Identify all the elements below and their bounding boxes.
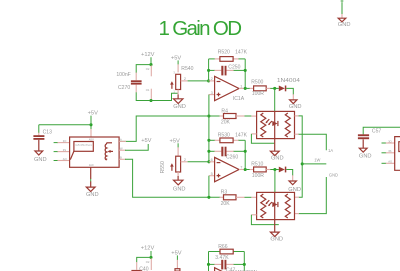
pin: relay2 left pin 1 (386, 142, 395, 144)
svg-text:20K: 20K (221, 201, 231, 207)
svg-text:GND: GND (270, 237, 283, 243)
pin: relay top pin (90, 129, 92, 137)
pin: opto2 left-top pin (251, 196, 256, 198)
pin: relay left pin 3 (58, 160, 70, 162)
pin: unconnected pin upper at x=151 (150, 65, 152, 76)
svg-text:1A0: 1A0 (89, 163, 94, 167)
wire: diode cathode to GND drop (286, 88, 293, 94)
svg-text:GND: GND (86, 192, 99, 198)
wire: GND jog from x=151 to trimmer bottom (151, 93, 178, 100)
junction: C260 rail left (207, 150, 210, 153)
relay K1 inner contact box (74, 142, 93, 152)
pin: opto1 right-top pin (295, 115, 300, 117)
pin: C260 left lead (214, 150, 221, 152)
pin: opto2 left-bottom pin (251, 214, 256, 216)
capacitor C57 plates (358, 134, 369, 136)
junction: diode D1 node (273, 87, 276, 90)
capacitor C47 plates (clipped) (221, 260, 223, 270)
potentiometer R68 body (clipped) (175, 269, 180, 271)
pin: C270 top lead (135, 73, 137, 81)
pin: relay left pin 1 (58, 142, 70, 144)
junction: C260 rail right (244, 150, 247, 153)
svg-text:5: 5 (211, 171, 213, 176)
svg-text:1 Gain OD: 1 Gain OD (159, 17, 243, 40)
wire: net stub 1W (302, 163, 326, 165)
wire: C270 bottom connection (136, 92, 151, 100)
pin: R550 wiper (181, 161, 188, 163)
svg-text:C250: C250 (228, 65, 240, 71)
potentiometer R550 body (176, 156, 181, 172)
wire: net stub 1A (299, 134, 327, 150)
ground (top right) (338, 18, 346, 22)
pin: C250 right lead (227, 69, 234, 71)
pin: R3 right lead (236, 196, 245, 198)
minus sign IC1A (217, 81, 221, 83)
svg-text:C57: C57 (372, 128, 382, 134)
ground (below relay) (86, 187, 95, 191)
pin: C40 top lead (136, 262, 138, 270)
svg-text:+5V: +5V (141, 138, 151, 144)
wire: +5V stub (bottom) (176, 255, 178, 260)
resistor R3 (224, 195, 237, 200)
diode D1 (1N4004) (279, 86, 285, 92)
pin: R550 top lead (177, 147, 179, 156)
relay coil arrow (110, 150, 114, 152)
capacitor C40 plates (clipped) (131, 270, 142, 271)
pin: R4 left lead (220, 115, 224, 117)
plus sign IC1B (217, 174, 221, 178)
svg-text:R3: R3 (221, 190, 228, 196)
resistor R520 (220, 57, 233, 62)
svg-text:R550: R550 (160, 161, 166, 173)
wire: R66 rail (209, 251, 221, 253)
svg-text:3O: 3O (388, 139, 392, 143)
wire: R540 wiper to IC1A inverting input (188, 80, 209, 82)
ground (below C13) (35, 151, 43, 155)
pin: relay left pin 2 (58, 151, 70, 153)
pin: D1 ground pin (292, 94, 294, 100)
capacitor C250 plates (221, 66, 223, 76)
wire: C13 to +5V node (39, 125, 91, 133)
resistor R4 (224, 114, 237, 119)
svg-text:2: 2 (211, 76, 213, 81)
wire: relay left pin 2 stub (54, 151, 58, 153)
optocoupler OK1 box (257, 111, 295, 138)
svg-text:3S: 3S (388, 149, 391, 153)
pin: opto1 right-bottom pin (295, 133, 300, 135)
wire: diode node down to opto1 LED (274, 88, 276, 111)
wire: IC1B non-inverting input drop (208, 176, 210, 198)
wire: opto1 right-top down to opto2 right-top (299, 116, 303, 197)
svg-text:+12V: +12V (141, 246, 155, 252)
resistor R510 (254, 167, 267, 172)
svg-text:C270: C270 (118, 85, 130, 91)
pin: opto1 left-bottom pin (251, 133, 256, 135)
wire: bottom stage left vertical (208, 252, 210, 271)
wire: relay pin B to R3 row (125, 159, 220, 197)
wire: R3 to opto2 (245, 196, 252, 198)
opto1 right LDR zigzag (285, 113, 290, 137)
svg-text:20K: 20K (221, 120, 231, 126)
svg-text:100nF: 100nF (116, 72, 130, 78)
pin: R520 left lead (215, 58, 220, 60)
svg-text:R530: R530 (218, 132, 230, 138)
pin: C13 top lead (38, 133, 40, 136)
svg-text:2: 2 (184, 157, 186, 162)
pin: R540 top lead (177, 64, 179, 72)
pin: R520 right lead (233, 58, 239, 60)
svg-text:+5V: +5V (171, 56, 181, 62)
wire: top-right vertical to ground (341, 0, 343, 14)
pin: R530 left lead (215, 139, 220, 141)
pin: unconnected pin at x=151 (bottom) (150, 258, 152, 270)
pin: IC1A inverting input pin (209, 80, 215, 82)
svg-text:GND: GND (173, 187, 186, 193)
svg-text:AO: AO (63, 157, 67, 161)
svg-text:C13: C13 (43, 129, 53, 135)
svg-text:R510: R510 (251, 162, 263, 168)
capacitor C57 top wire (363, 127, 400, 134)
wire: IC1B output to R510 (245, 169, 250, 171)
wire: opto2 left-bottom to ground pin (251, 215, 278, 225)
wire: net stub GND to opto2 right-bottom (299, 177, 327, 214)
svg-text:100R: 100R (252, 91, 264, 97)
svg-text:R500: R500 (251, 80, 263, 86)
plus sign IC1A (217, 93, 221, 97)
pin: IC1B output pin (239, 169, 245, 171)
wire: relay2 left pin 1 stub (382, 142, 387, 144)
svg-text:A: A (120, 138, 122, 142)
svg-text:GND: GND (173, 104, 186, 110)
svg-text:147K: 147K (235, 132, 247, 138)
opto1 LED pin line (274, 111, 276, 138)
wire: +5V stub above R540 (177, 60, 179, 64)
svg-text:GND: GND (34, 157, 47, 163)
svg-text:R4: R4 (221, 109, 228, 115)
ground lead below C13 (38, 140, 40, 151)
opto1 left LDR zigzag (261, 113, 266, 137)
wire: +5V stub to relay node (90, 116, 92, 130)
svg-text:R66: R66 (218, 244, 228, 250)
opto1 ground pin below box (274, 139, 276, 152)
pin: bottom trimmer top lead (176, 260, 178, 269)
junction: rail R530 left (207, 139, 210, 142)
wire: R500 to diode node (270, 87, 279, 89)
ground (below opto1) (270, 151, 279, 155)
pin circle at top edge (341, 0, 343, 2)
wire: bottom stage right vertical (243, 252, 245, 271)
svg-text:C260: C260 (226, 154, 238, 160)
wire: D2 node down to opto2 LED (274, 170, 276, 193)
pin: R510 right lead (266, 169, 270, 171)
pin: R510 left lead (250, 169, 254, 171)
opto1 emission arrows (266, 119, 272, 124)
wire: feedback right vertical (rail to IC1A output) (244, 59, 246, 89)
pin: R540 wiper (181, 80, 188, 82)
opto2 emission arrows (266, 200, 272, 205)
wire: relay2 left pin 3 stub (382, 162, 387, 164)
pin: opto2 right-top pin (295, 196, 300, 198)
junction: IC1A output node (244, 87, 247, 90)
ground (after D1) (290, 100, 297, 104)
svg-text:1A: 1A (328, 148, 333, 153)
wire: C40 top connection (137, 257, 151, 262)
svg-text:7: 7 (240, 165, 242, 170)
potentiometer R540 body (176, 74, 181, 89)
pin: C270 bottom lead (135, 85, 137, 93)
pin: relay right pin W (119, 149, 126, 151)
svg-text:3O: 3O (63, 139, 67, 143)
pin: C47 right lead (227, 263, 234, 265)
junction: rail/C250 left (207, 69, 210, 72)
wire: green tip on relay ground pin (90, 179, 92, 182)
junction at +12V node (149, 63, 152, 66)
junction: C47 rail right (243, 263, 246, 266)
pin: IC1B inverting input pin (209, 161, 215, 163)
pin: relay2 left pin 2 (386, 152, 395, 154)
diode D2 (279, 167, 285, 173)
ground (below R540) (174, 99, 183, 104)
junction: +12V node (bottom) (149, 256, 152, 259)
ground lead below C57 (362, 139, 364, 148)
svg-text:GND: GND (338, 22, 351, 28)
junction: R3 tee (207, 196, 210, 199)
svg-text:O2: O2 (146, 67, 150, 71)
svg-text:AO: AO (388, 160, 392, 164)
opto2 LED pin line (274, 192, 276, 219)
junction at GND node x=151 (149, 99, 152, 102)
wire: R510 to diode D2 node (270, 169, 279, 171)
svg-text:A5V: A5V (89, 138, 94, 142)
junction: diode D2 node (273, 168, 276, 171)
junction: C47 rail left (207, 263, 210, 266)
svg-text:C40: C40 (139, 267, 149, 271)
opto2 right LDR zigzag (285, 194, 290, 218)
svg-text:1W: 1W (314, 158, 320, 163)
svg-text:O2: O2 (146, 260, 150, 264)
wire: +12V stub (150, 57, 152, 64)
capacitor C270 plates (131, 80, 142, 82)
pin: relay right pin A (119, 140, 126, 142)
svg-text:O1: O1 (146, 88, 150, 92)
wire: IC1A non-inverting input drop (208, 95, 210, 116)
relay K1 box (70, 137, 120, 167)
pin: C250 left lead (214, 69, 221, 71)
pin: C260 right lead (227, 150, 234, 152)
opto2 LED symbol (272, 202, 277, 207)
ground (after D2) (289, 181, 296, 185)
svg-text:GND: GND (359, 154, 372, 160)
ground lead (below relay) (90, 181, 92, 187)
svg-text:R520: R520 (218, 49, 230, 55)
trimmer arrow R550 (171, 166, 173, 171)
wire: R520 top rail (209, 58, 216, 60)
minus sign IC1B (217, 162, 221, 164)
pin: IC1A non-inverting input pin (209, 94, 215, 96)
svg-text:GND: GND (289, 104, 302, 110)
ground (below C57) (359, 148, 367, 152)
wire: C260 rail (209, 150, 215, 152)
svg-text:3: 3 (173, 71, 175, 75)
svg-text:GND: GND (329, 172, 338, 177)
ground lead below R540 (177, 95, 179, 99)
svg-text:3: 3 (211, 90, 213, 95)
ground (below R550) (174, 180, 183, 185)
opto1 LED symbol (272, 121, 277, 126)
resistor R530 (220, 138, 233, 143)
opto2 ground pin below box (274, 220, 276, 233)
junction: IC1B -in node (207, 160, 210, 163)
relay ground pin (90, 167, 92, 179)
optocoupler OK2 box (257, 192, 295, 219)
pin: IC1A output pin (239, 87, 245, 89)
pin: top-right ground pin (341, 14, 343, 18)
svg-text:1: 1 (240, 84, 242, 89)
wire: C47 rail (209, 263, 215, 265)
pin: R500 left lead (250, 87, 254, 89)
relay switch lever (70, 151, 74, 159)
svg-text:+5V: +5V (88, 110, 98, 116)
wire: feedback left vertical (rail to IC1A -in) (208, 59, 210, 81)
pin: R540 bottom lead (177, 90, 179, 95)
pin: opto1 left-top pin (251, 115, 256, 117)
svg-text:6: 6 (211, 157, 213, 162)
svg-text:G5 05x7to1: G5 05x7to1 (75, 143, 92, 147)
op-amp IC3 (clipped at bottom edge) (215, 268, 239, 271)
junction: 1W tee (301, 162, 304, 165)
junction: rail/C250 right (244, 69, 247, 72)
junction: R4 tee (207, 114, 210, 117)
pin: relay right pin B (119, 158, 126, 160)
pin: R500 right lead (266, 87, 270, 89)
junction: IC1B output node (244, 168, 247, 171)
wire: relay pin W to +5V (125, 144, 148, 150)
trimmer arrow R540 (171, 84, 173, 89)
relay K2 inner box partial (399, 142, 400, 152)
relay K2 box (partial at right edge) (395, 137, 400, 171)
relay coil (105, 143, 106, 160)
wire: C270 top connection (136, 65, 151, 73)
wire: R550 wiper to IC1B inverting input (188, 161, 209, 163)
svg-text:1N4004: 1N4004 (277, 78, 300, 84)
wire: stage2 left vertical (R4 tee down through rails to IC1B -in) (208, 116, 210, 162)
svg-text:R540: R540 (181, 66, 193, 72)
wire: C250 rail (209, 69, 215, 71)
svg-text:147K: 147K (235, 49, 247, 55)
junction: +5V / C13 node (89, 123, 92, 126)
ground (below opto2) (270, 232, 279, 236)
pin: R550 bottom lead (177, 172, 179, 176)
svg-text:3S: 3S (63, 148, 66, 152)
svg-text:GND: GND (271, 156, 284, 162)
pin: opto2 right-bottom pin (295, 213, 300, 215)
capacitor C13 plates (33, 135, 44, 137)
pin: D2 ground pin (292, 175, 294, 181)
wire: opto1 left-bottom to center ground pin (251, 134, 274, 143)
op-amp IC1B (215, 157, 239, 181)
pin: R4 right lead (236, 115, 245, 117)
pin: IC1B non-inverting input pin (209, 175, 215, 177)
resistor R66 (220, 249, 233, 254)
svg-text:+5V: +5V (171, 251, 181, 257)
wire: R4 to opto1 (245, 115, 252, 117)
wire: relay left pin 1 stub (54, 142, 58, 144)
pin: R3 left lead (220, 196, 224, 198)
op-amp IC1A (215, 76, 239, 100)
svg-text:B: B (120, 156, 122, 160)
pin: R530 right lead (233, 139, 239, 141)
resistor R500 (254, 86, 267, 91)
wire: IC1A output to R500 (245, 87, 250, 89)
wire: relay2 left pin 2 stub (382, 152, 387, 154)
wire: relay pin A to R4 row (120, 116, 221, 141)
wire: D2 cathode to GND drop (286, 170, 292, 176)
pin: C47 left lead (214, 263, 221, 265)
capacitor C260 plates (221, 147, 223, 157)
svg-text:100R: 100R (252, 173, 264, 179)
pin: R66 left lead (220, 251, 224, 253)
wire: +5V stub above R550 (177, 143, 179, 147)
ground lead below R550 (177, 176, 179, 180)
pin: relay2 left pin 3 (386, 162, 395, 164)
wire: stage2 feedback right vertical (244, 140, 246, 169)
svg-text:+12V: +12V (141, 52, 155, 58)
relay coil top link (107, 142, 112, 144)
wire: R530 top rail (209, 139, 215, 141)
junction: IC1A -in node (207, 79, 210, 82)
wire: +12V stub (bottom) (150, 251, 152, 257)
svg-text:IC1A: IC1A (233, 96, 245, 102)
opto2 left LDR zigzag (261, 194, 266, 218)
pin: unconnected pin lower at x=151 (150, 89, 152, 100)
wire: relay left pin 3 stub (54, 160, 58, 162)
svg-text:2: 2 (184, 76, 186, 81)
